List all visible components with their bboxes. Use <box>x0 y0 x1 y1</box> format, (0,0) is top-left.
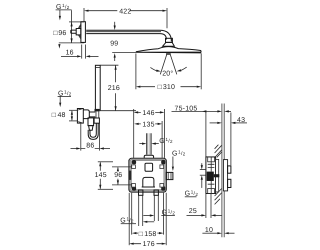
right port stub <box>166 172 173 179</box>
leader arrow from G1/2 to wall union <box>59 10 61 21</box>
shower hose loop <box>88 123 98 139</box>
label G1/2 (hand shower wall union) <box>58 89 72 97</box>
label G1/2 bottom left port <box>120 217 154 225</box>
ball joint nut <box>166 38 173 42</box>
svg-text:422: 422 <box>119 8 131 15</box>
head shower plate (side profile) <box>136 47 202 55</box>
svg-text:□96: □96 <box>53 30 66 37</box>
wall flange plate (head shower) <box>79 22 86 43</box>
wall hatching above box <box>215 145 222 158</box>
finished wall lines <box>222 104 224 238</box>
label G1/2 top-left (head shower wall union) <box>56 3 72 11</box>
top outlet pipe (front view) <box>144 133 153 158</box>
spray cone lines <box>160 55 177 75</box>
thermostat knob upper <box>228 166 231 173</box>
mixer rough-in box (front view) <box>129 158 166 192</box>
supply pipe stub <box>71 30 76 33</box>
volume knob lower <box>228 179 231 187</box>
extension lines above mixer box <box>134 109 165 158</box>
svg-text:96: 96 <box>114 172 122 179</box>
leader arrow to hand shower union <box>59 96 61 107</box>
dimension 422 (shower arm projection) <box>84 8 167 28</box>
shower arm <box>86 30 171 41</box>
spray angle arc arrows 20deg <box>150 67 186 78</box>
svg-text:20°: 20° <box>162 71 173 78</box>
dimension 176 (box width) <box>129 241 166 248</box>
svg-text:216: 216 <box>108 85 120 92</box>
svg-text:16: 16 <box>66 49 74 56</box>
dimension 25 (min embed) <box>187 193 222 218</box>
upper function square <box>132 163 164 187</box>
dimension 145 (box height) <box>95 162 113 190</box>
dimension 86 (hose stand-off) <box>71 121 111 151</box>
trim plate (side view) <box>223 160 227 191</box>
dimension 96 (port span) <box>112 167 132 185</box>
dimension 43 (knob projection) <box>210 113 247 166</box>
label G1/2 pipe thread callout <box>139 137 173 145</box>
dimension square-158 (trim plate) <box>132 231 164 238</box>
extension lines below box <box>129 193 166 245</box>
svg-text:□310: □310 <box>158 84 176 91</box>
hand shower stick <box>95 65 101 111</box>
ball joint cone <box>163 42 175 46</box>
union nut on flange <box>76 29 81 35</box>
bottom port stubs <box>139 190 159 195</box>
supply elbow fitting <box>88 111 99 130</box>
hand shower wall bracket plate <box>77 109 83 124</box>
left inlet port (dark slot) <box>129 171 131 180</box>
side view: rough-in box body <box>206 157 219 194</box>
dimension 16 (escutcheon depth) <box>61 45 99 59</box>
svg-text:25: 25 <box>189 208 197 215</box>
wall hatching below box <box>215 188 222 204</box>
dimension 99 (arm to spray face) <box>110 22 136 61</box>
svg-text:□48: □48 <box>52 112 66 119</box>
dimension square-310 (head width) <box>136 54 201 92</box>
svg-text:□158: □158 <box>139 231 157 238</box>
dimension 75-105 (mounting depth range) <box>172 106 232 157</box>
label G1/2 bottom right port <box>143 208 175 216</box>
dimension 135 <box>134 122 162 129</box>
mini dimension arrows at back port <box>200 163 206 188</box>
dimension 146 (box top width) <box>134 110 165 117</box>
dimension 216 (hand shower length) <box>100 65 136 111</box>
cartridge (dark) in side view <box>207 172 214 181</box>
svg-text:145: 145 <box>95 172 107 179</box>
svg-text:176: 176 <box>143 241 155 248</box>
lower cartridge square <box>142 177 155 187</box>
svg-text:135: 135 <box>142 122 154 129</box>
svg-text:146: 146 <box>142 110 154 117</box>
svg-text:86: 86 <box>86 143 94 150</box>
dimension 10 (wall thickness) <box>202 227 234 234</box>
label G1/2 side view back port <box>185 190 199 198</box>
svg-text:43: 43 <box>237 117 245 124</box>
dimension square-48 (hand shower escutcheon) <box>52 110 78 121</box>
corner screws <box>132 160 166 191</box>
label G1/2 right port callout <box>172 149 186 171</box>
svg-text:99: 99 <box>110 41 118 48</box>
dimension square-96 (wall escutcheon) <box>53 10 84 48</box>
hand shower holder arm <box>83 110 95 119</box>
